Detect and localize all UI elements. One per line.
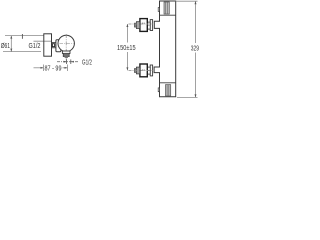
dim line vertical Ø61 [10, 36, 12, 52]
top handle nub [134, 23, 136, 27]
arrowheads Ø61 [10, 36, 12, 39]
svg-text:G1/2: G1/2 [29, 41, 41, 50]
dim extension line top (knob top tangent) [5, 35, 44, 37]
escutcheon plate [44, 34, 52, 56]
left wall tabs [158, 8, 159, 12]
bottom handle knob [140, 64, 147, 77]
bottom section line [160, 82, 176, 84]
outlet tip [65, 57, 68, 58]
87-99 dim line left part with arrow [34, 67, 44, 69]
svg-text:150±15: 150±15 [117, 43, 136, 52]
centerline cross [65, 34, 67, 62]
outlet thread (hatched) [63, 53, 69, 56]
329 dim line [195, 1, 197, 43]
arrowheads pointing inward [64, 61, 67, 63]
top hatched fitting [164, 2, 169, 14]
nipple (hatched connector) [52, 42, 56, 47]
87-99 dim right arrow and tick [63, 67, 68, 69]
ticks [66, 59, 68, 64]
top section line [160, 14, 176, 16]
bottom hatched fitting [166, 85, 171, 96]
svg-text:329: 329 [191, 44, 199, 53]
bottom handle stem [147, 67, 150, 74]
dim extension line bottom (knob bottom tangent) [3, 51, 41, 53]
main column [154, 1, 176, 97]
body cylinder [56, 40, 61, 52]
tick on upper extension line [21, 34, 23, 39]
G1/2 outlet dim line (dash-dot) [57, 61, 78, 63]
top handle plate [150, 20, 152, 31]
top handle knob [140, 19, 147, 32]
handle centerlines (dash-dot) [129, 23, 154, 25]
svg-text:87 - 99: 87 - 99 [45, 64, 62, 73]
top handle stem [147, 22, 150, 29]
knob circle [58, 35, 74, 51]
bottom handle nub [134, 69, 136, 73]
bottom handle cap [136, 67, 139, 74]
329 extension lines [176, 0, 198, 2]
leader over G1/2 [34, 40, 52, 42]
outlet collar [62, 51, 70, 53]
bottom handle plate [150, 65, 152, 76]
150±15 dim line [126, 24, 128, 43]
svg-text:Ø61: Ø61 [1, 41, 10, 50]
svg-text:G1/2: G1/2 [82, 58, 92, 67]
top handle cap [136, 22, 139, 29]
